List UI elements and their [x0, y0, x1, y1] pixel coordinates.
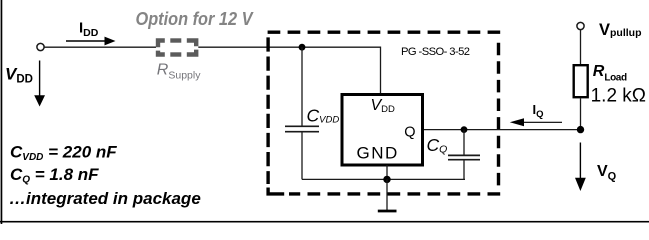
node junction GND rail — [383, 176, 390, 183]
svg-text:PG -SSO- 3-52: PG -SSO- 3-52 — [401, 46, 470, 58]
svg-text:Option for 12 V: Option for 12 V — [136, 8, 254, 29]
svg-text:1.2 kΩ: 1.2 kΩ — [591, 86, 646, 107]
wire Vpullup to RLoad — [580, 30, 582, 65]
svg-text:…integrated in package: …integrated in package — [9, 189, 201, 208]
capacitor CVDD — [285, 125, 319, 127]
svg-text:Q: Q — [404, 124, 415, 140]
resistor RLoad — [574, 65, 588, 97]
frame bottom border — [0, 221, 649, 223]
wire junction to CVDD — [301, 47, 303, 126]
current arrow IQ — [522, 121, 562, 123]
wire IC Q pin to pullup node — [424, 129, 581, 131]
wire bottom ground rail — [302, 178, 465, 180]
ground symbol — [378, 210, 397, 213]
IC U1 box — [342, 95, 423, 166]
svg-text:GND: GND — [357, 144, 399, 163]
wire RLoad to Q node — [580, 99, 582, 130]
package dashed box PG-SSO-3-52 — [268, 32, 501, 194]
node junction on VDD rail — [299, 44, 306, 51]
node junction CQ — [461, 126, 468, 133]
node junction Q output — [577, 126, 584, 133]
terminal Vpullup circle — [577, 22, 584, 29]
current arrow IDD — [66, 40, 106, 42]
terminal VDD input circle — [37, 43, 44, 50]
voltage arrow VQ — [579, 143, 581, 180]
wire junction to ground — [386, 179, 388, 211]
capacitor CQ — [448, 154, 480, 156]
wire R_Supply to IC VDD pin — [198, 47, 380, 94]
resistor RSupply (dashed option box) — [158, 41, 196, 55]
voltage arrow VDD — [39, 61, 41, 97]
wire CVDD to bottom rail — [301, 132, 303, 180]
wire CQ to bottom rail — [463, 160, 465, 180]
wire input to R_Supply — [44, 46, 156, 48]
wire junction to CQ — [463, 130, 465, 156]
frame left border — [1, 0, 3, 224]
wire IC GND pin to rail — [386, 165, 388, 179]
